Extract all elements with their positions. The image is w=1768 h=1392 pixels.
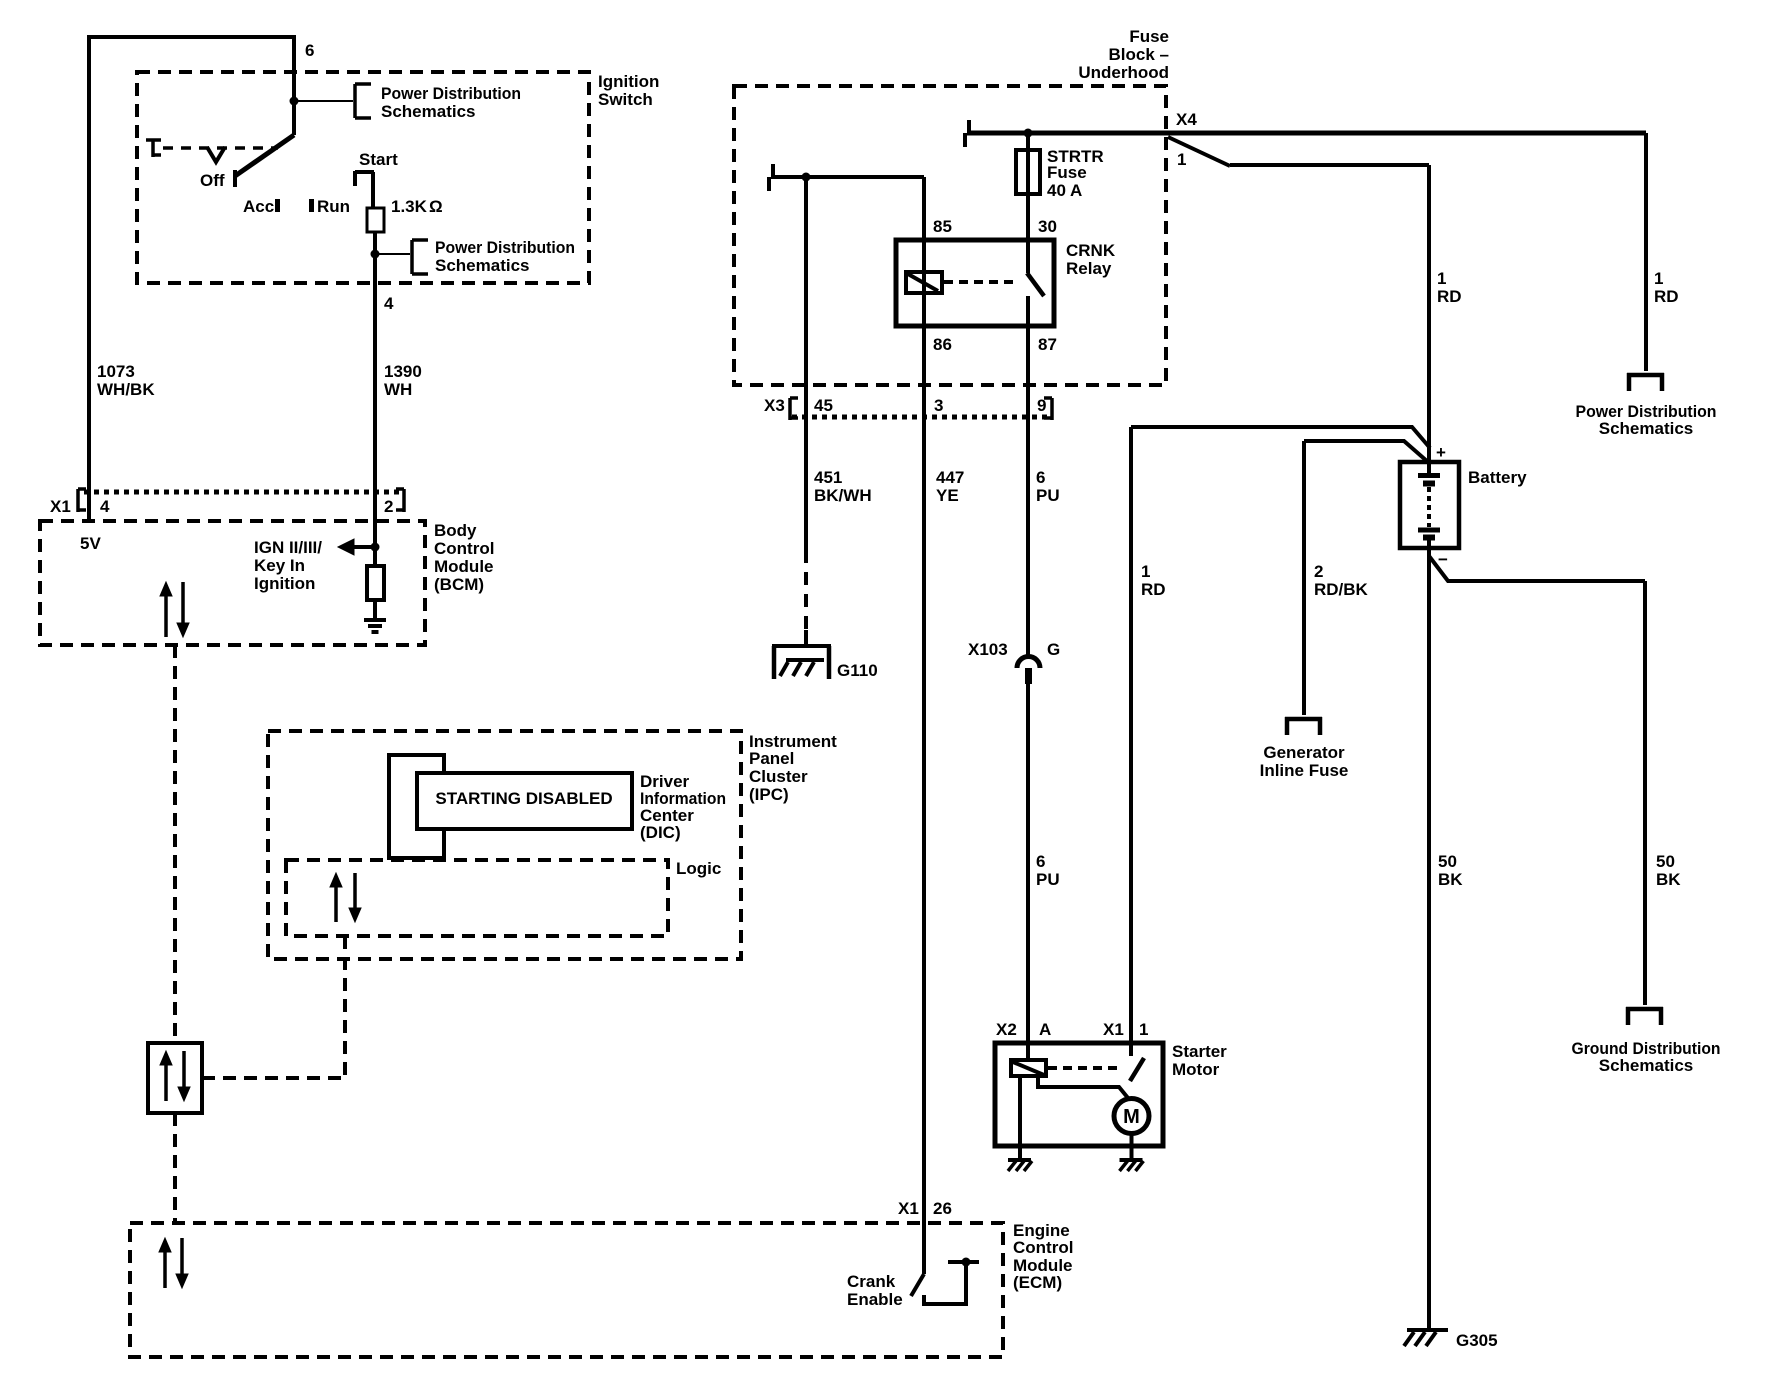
- svg-text:45: 45: [814, 396, 833, 415]
- svg-text:Off: Off: [200, 171, 225, 190]
- svg-text:Fuse: Fuse: [1047, 163, 1087, 182]
- svg-text:Control: Control: [1013, 1238, 1073, 1257]
- svg-text:WH/BK: WH/BK: [97, 380, 155, 399]
- svg-text:50: 50: [1656, 852, 1675, 871]
- svg-text:86: 86: [933, 335, 952, 354]
- svg-text:Underhood: Underhood: [1078, 63, 1169, 82]
- svg-text:M: M: [1123, 1106, 1140, 1128]
- svg-text:9: 9: [1037, 396, 1046, 415]
- svg-text:G: G: [1047, 640, 1060, 659]
- svg-text:451: 451: [814, 468, 842, 487]
- svg-text:87: 87: [1038, 335, 1057, 354]
- svg-text:Ignition: Ignition: [598, 72, 659, 91]
- svg-text:Module: Module: [434, 557, 494, 576]
- svg-text:2: 2: [1314, 562, 1323, 581]
- svg-text:Motor: Motor: [1172, 1060, 1220, 1079]
- svg-text:1: 1: [1437, 269, 1446, 288]
- svg-text:1: 1: [1141, 562, 1150, 581]
- svg-text:−: −: [1438, 550, 1448, 569]
- svg-text:Logic: Logic: [676, 859, 721, 878]
- svg-text:Switch: Switch: [598, 90, 653, 109]
- svg-text:RD: RD: [1437, 287, 1462, 306]
- svg-text:Ω: Ω: [429, 197, 443, 216]
- svg-text:447: 447: [936, 468, 964, 487]
- svg-text:X1: X1: [50, 497, 71, 516]
- svg-text:BK: BK: [1656, 870, 1681, 889]
- svg-text:PU: PU: [1036, 870, 1060, 889]
- svg-text:Schematics: Schematics: [435, 256, 530, 275]
- svg-text:Block –: Block –: [1109, 45, 1169, 64]
- svg-text:WH: WH: [384, 380, 412, 399]
- svg-text:1: 1: [1654, 269, 1663, 288]
- svg-text:X1: X1: [1103, 1020, 1124, 1039]
- svg-text:PU: PU: [1036, 486, 1060, 505]
- svg-text:Fuse: Fuse: [1129, 27, 1169, 46]
- svg-text:A: A: [1039, 1020, 1051, 1039]
- svg-text:Run: Run: [317, 197, 350, 216]
- svg-text:CRNK: CRNK: [1066, 241, 1116, 260]
- svg-text:BK/WH: BK/WH: [814, 486, 872, 505]
- svg-text:(ECM): (ECM): [1013, 1273, 1062, 1292]
- svg-text:30: 30: [1038, 217, 1057, 236]
- svg-text:Generator: Generator: [1263, 743, 1345, 762]
- svg-text:RD/BK: RD/BK: [1314, 580, 1369, 599]
- svg-text:IGN II/III/: IGN II/III/: [254, 538, 322, 557]
- svg-text:2: 2: [384, 497, 393, 516]
- svg-text:6: 6: [1036, 852, 1045, 871]
- svg-text:Enable: Enable: [847, 1290, 903, 1309]
- svg-text:Relay: Relay: [1066, 259, 1112, 278]
- svg-text:1: 1: [1177, 150, 1186, 169]
- svg-text:Battery: Battery: [1468, 468, 1527, 487]
- svg-text:Control: Control: [434, 539, 494, 558]
- svg-text:Schematics: Schematics: [1599, 419, 1694, 438]
- svg-text:26: 26: [933, 1199, 952, 1218]
- svg-text:1: 1: [1139, 1020, 1148, 1039]
- svg-text:Acc: Acc: [243, 197, 274, 216]
- svg-text:BK: BK: [1438, 870, 1463, 889]
- svg-text:4: 4: [384, 294, 394, 313]
- svg-text:Schematics: Schematics: [1599, 1056, 1694, 1075]
- svg-text:40 A: 40 A: [1047, 181, 1082, 200]
- svg-text:(DIC): (DIC): [640, 823, 681, 842]
- svg-text:1.3K: 1.3K: [391, 197, 428, 216]
- svg-text:Power Distribution: Power Distribution: [435, 238, 575, 257]
- svg-text:RD: RD: [1141, 580, 1166, 599]
- svg-text:X103: X103: [968, 640, 1008, 659]
- svg-text:Cluster: Cluster: [749, 767, 808, 786]
- svg-text:Ignition: Ignition: [254, 574, 315, 593]
- svg-text:85: 85: [933, 217, 952, 236]
- svg-text:G110: G110: [837, 661, 878, 680]
- svg-text:Crank: Crank: [847, 1272, 896, 1291]
- svg-text:5V: 5V: [80, 534, 101, 553]
- svg-text:Key In: Key In: [254, 556, 305, 575]
- svg-text:50: 50: [1438, 852, 1457, 871]
- svg-text:Schematics: Schematics: [381, 102, 476, 121]
- svg-text:+: +: [1436, 443, 1446, 462]
- svg-text:YE: YE: [936, 486, 959, 505]
- svg-text:Starter: Starter: [1172, 1042, 1227, 1061]
- svg-text:X4: X4: [1176, 110, 1197, 129]
- svg-text:X1: X1: [898, 1199, 919, 1218]
- svg-text:4: 4: [100, 497, 110, 516]
- svg-text:STARTING DISABLED: STARTING DISABLED: [435, 789, 612, 808]
- svg-text:1390: 1390: [384, 362, 422, 381]
- svg-text:RD: RD: [1654, 287, 1679, 306]
- svg-text:1073: 1073: [97, 362, 135, 381]
- svg-text:Panel: Panel: [749, 749, 794, 768]
- svg-text:6: 6: [1036, 468, 1045, 487]
- svg-text:(IPC): (IPC): [749, 785, 789, 804]
- svg-text:6: 6: [305, 41, 314, 60]
- svg-text:Power Distribution: Power Distribution: [381, 84, 521, 103]
- svg-text:Inline Fuse: Inline Fuse: [1260, 761, 1349, 780]
- svg-text:Body: Body: [434, 521, 477, 540]
- svg-text:G305: G305: [1456, 1331, 1498, 1350]
- svg-text:Start: Start: [359, 150, 398, 169]
- svg-text:(BCM): (BCM): [434, 575, 484, 594]
- svg-text:X2: X2: [996, 1020, 1017, 1039]
- svg-text:3: 3: [934, 396, 943, 415]
- svg-text:X3: X3: [764, 396, 785, 415]
